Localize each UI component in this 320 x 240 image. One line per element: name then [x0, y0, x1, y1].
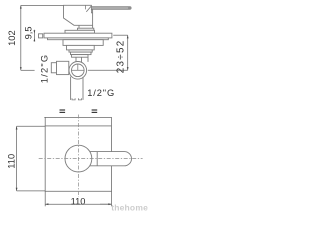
- svg-text:102: 102: [7, 30, 17, 46]
- svg-text:1/2"G: 1/2"G: [40, 54, 50, 83]
- svg-text:thehomes: thehomes: [111, 203, 148, 213]
- svg-text:110: 110: [71, 196, 86, 206]
- svg-text:110: 110: [7, 154, 17, 169]
- svg-text:9,5: 9,5: [24, 26, 34, 39]
- svg-text:23÷52: 23÷52: [115, 40, 126, 74]
- svg-text:1/2"G: 1/2"G: [87, 88, 115, 98]
